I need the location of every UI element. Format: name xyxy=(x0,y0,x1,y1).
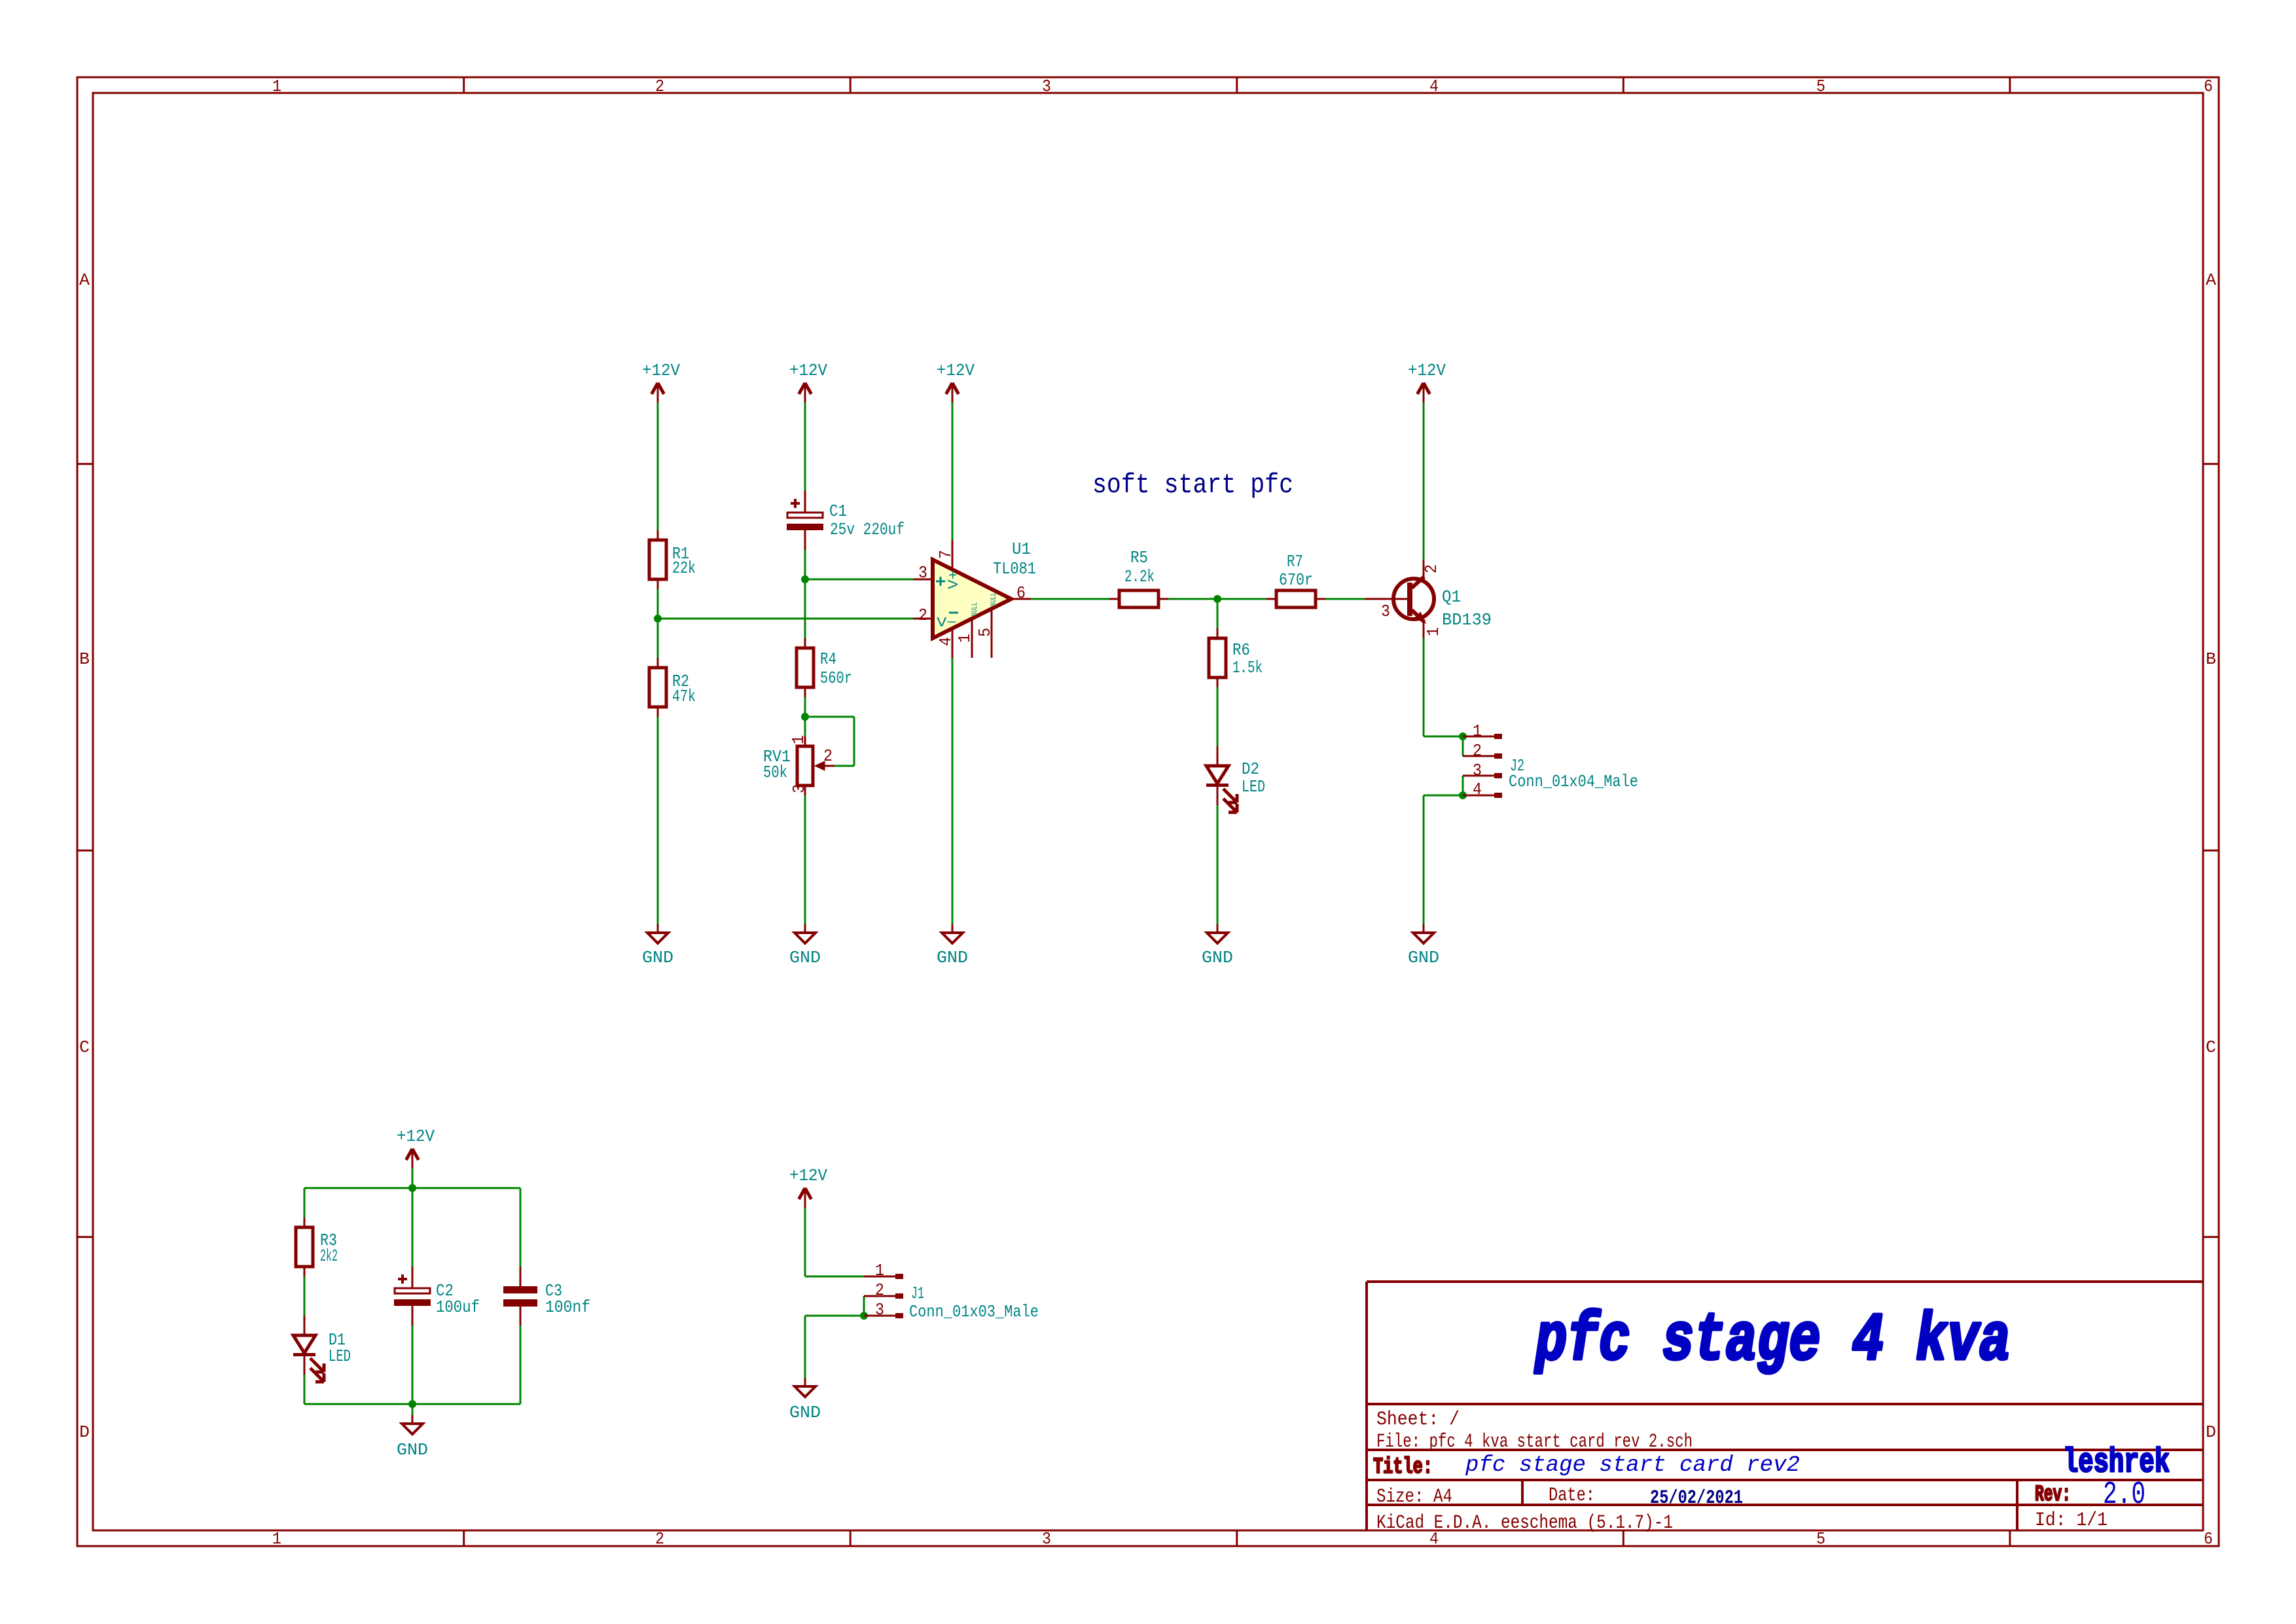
svg-text:4: 4 xyxy=(1429,77,1439,96)
svg-text:NULL: NULL xyxy=(970,602,979,616)
svg-text:2k2: 2k2 xyxy=(320,1246,338,1266)
svg-text:2: 2 xyxy=(918,605,927,625)
svg-text:4: 4 xyxy=(1473,780,1482,799)
svg-text:GND: GND xyxy=(789,948,821,967)
svg-text:pfc stage 4 kva: pfc stage 4 kva xyxy=(1534,1303,2011,1379)
svg-text:A: A xyxy=(2206,270,2216,290)
svg-text:R5: R5 xyxy=(1130,548,1148,568)
svg-text:V−: V− xyxy=(937,616,957,631)
svg-text:LED: LED xyxy=(329,1346,351,1366)
svg-text:GND: GND xyxy=(642,948,673,967)
svg-text:GND: GND xyxy=(789,1403,821,1422)
svg-text:D: D xyxy=(79,1422,90,1442)
svg-text:leshrek: leshrek xyxy=(2063,1443,2170,1482)
svg-text:560r: 560r xyxy=(820,668,852,688)
svg-text:D: D xyxy=(2206,1422,2216,1442)
svg-text:3: 3 xyxy=(875,1300,884,1320)
svg-text:5: 5 xyxy=(1816,77,1825,96)
svg-text:Title:: Title: xyxy=(1373,1455,1433,1480)
svg-text:4: 4 xyxy=(936,637,956,646)
svg-text:2: 2 xyxy=(1473,741,1482,761)
svg-text:GND: GND xyxy=(937,948,968,967)
svg-text:+12V: +12V xyxy=(937,361,975,380)
svg-text:V+: V+ xyxy=(946,570,962,589)
svg-text:U1: U1 xyxy=(1012,539,1031,559)
svg-text:3: 3 xyxy=(1473,761,1482,780)
svg-text:+12V: +12V xyxy=(642,361,680,380)
svg-text:+12V: +12V xyxy=(1408,361,1446,380)
svg-text:2: 2 xyxy=(655,1529,664,1549)
svg-text:+12V: +12V xyxy=(789,1166,827,1185)
svg-text:1: 1 xyxy=(272,77,281,96)
svg-text:5: 5 xyxy=(975,628,995,637)
svg-text:3: 3 xyxy=(1042,1529,1051,1549)
svg-text:2: 2 xyxy=(1422,564,1441,573)
svg-text:3: 3 xyxy=(1381,602,1390,621)
svg-text:R6: R6 xyxy=(1232,640,1250,660)
svg-text:6: 6 xyxy=(1016,583,1026,603)
svg-text:D2: D2 xyxy=(1242,759,1259,779)
svg-text:1: 1 xyxy=(875,1261,884,1280)
svg-text:3: 3 xyxy=(918,563,927,583)
svg-text:1: 1 xyxy=(1424,627,1443,636)
svg-text:File: pfc 4 kva start card rev: File: pfc 4 kva start card rev 2.sch xyxy=(1376,1431,1693,1453)
svg-text:GND: GND xyxy=(1202,948,1233,967)
svg-text:R7: R7 xyxy=(1287,552,1303,571)
svg-text:47k: 47k xyxy=(672,687,696,706)
svg-text:2.2k: 2.2k xyxy=(1124,567,1155,586)
svg-text:5: 5 xyxy=(1816,1529,1825,1549)
svg-text:Date:: Date: xyxy=(1549,1485,1595,1507)
svg-text:7: 7 xyxy=(936,550,956,559)
svg-text:NULL: NULL xyxy=(989,592,998,606)
svg-text:Conn_01x03_Male: Conn_01x03_Male xyxy=(909,1302,1039,1322)
svg-text:100nf: 100nf xyxy=(545,1297,590,1317)
svg-text:2: 2 xyxy=(655,77,664,96)
svg-text:Id: 1/1: Id: 1/1 xyxy=(2035,1509,2108,1532)
svg-text:22k: 22k xyxy=(672,558,696,578)
svg-text:Conn_01x04_Male: Conn_01x04_Male xyxy=(1509,772,1638,791)
svg-text:+12V: +12V xyxy=(789,361,827,380)
svg-text:1: 1 xyxy=(955,634,975,643)
svg-text:Rev:: Rev: xyxy=(2035,1483,2071,1507)
svg-text:A: A xyxy=(79,270,90,290)
svg-text:R4: R4 xyxy=(820,649,836,669)
svg-text:1: 1 xyxy=(789,735,808,744)
svg-text:C: C xyxy=(79,1038,90,1057)
svg-text:25v 220uf: 25v 220uf xyxy=(830,520,905,539)
svg-text:GND: GND xyxy=(1408,948,1439,967)
svg-text:1: 1 xyxy=(1473,721,1482,741)
svg-text:Sheet: /: Sheet: / xyxy=(1376,1409,1460,1431)
svg-text:2.0: 2.0 xyxy=(2103,1477,2145,1513)
svg-text:6: 6 xyxy=(2204,1529,2213,1549)
svg-text:B: B xyxy=(79,649,90,669)
svg-text:25/02/2021: 25/02/2021 xyxy=(1650,1487,1743,1509)
svg-text:3: 3 xyxy=(1042,77,1051,96)
svg-text:KiCad E.D.A. eeschema (5.1.7): KiCad E.D.A. eeschema (5.1.7)-1 xyxy=(1376,1512,1673,1534)
svg-text:1.5k: 1.5k xyxy=(1232,658,1263,677)
svg-text:6: 6 xyxy=(2204,77,2213,96)
svg-text:50k: 50k xyxy=(763,763,787,782)
svg-text:Q1: Q1 xyxy=(1442,587,1461,607)
svg-text:B: B xyxy=(2206,649,2216,669)
svg-text:BD139: BD139 xyxy=(1442,610,1492,630)
svg-text:Size: A4: Size: A4 xyxy=(1376,1486,1452,1508)
svg-text:GND: GND xyxy=(397,1440,428,1460)
svg-text:TL081: TL081 xyxy=(993,559,1036,579)
svg-text:2: 2 xyxy=(875,1280,884,1300)
svg-text:C1: C1 xyxy=(829,501,847,521)
svg-text:soft start pfc: soft start pfc xyxy=(1092,469,1293,501)
svg-text:pfc stage start card rev2: pfc stage start card rev2 xyxy=(1465,1453,1800,1478)
svg-text:3: 3 xyxy=(789,784,809,793)
svg-text:+12V: +12V xyxy=(397,1127,435,1146)
svg-text:C: C xyxy=(2206,1038,2216,1057)
svg-text:J1: J1 xyxy=(911,1284,924,1303)
svg-text:670r: 670r xyxy=(1279,570,1313,590)
svg-text:LED: LED xyxy=(1242,777,1265,797)
svg-text:2: 2 xyxy=(823,746,833,766)
svg-text:100uf: 100uf xyxy=(436,1297,480,1317)
svg-text:1: 1 xyxy=(272,1529,281,1549)
